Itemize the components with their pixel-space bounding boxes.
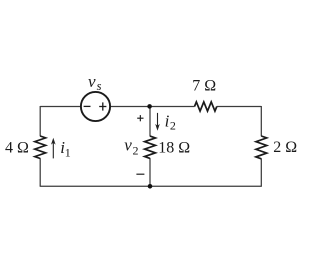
svg-text:s: s (97, 79, 102, 93)
svg-text:18 Ω: 18 Ω (158, 140, 190, 157)
wire right branch upper (260, 106, 262, 136)
label v2 (124, 136, 138, 158)
svg-text:7 Ω: 7 Ω (192, 78, 216, 95)
polarity minus (v2) (136, 173, 144, 175)
wire top-right segment (7ohm to corner) (217, 106, 261, 108)
wire bottom segment (40, 185, 262, 187)
wire middle branch lower (149, 158, 151, 186)
svg-text:i: i (165, 111, 170, 130)
label i2 (165, 111, 176, 132)
wire right branch lower (260, 159, 262, 187)
resistor 4 Ohm (35, 136, 46, 159)
resistor 2 Ohm (256, 136, 267, 159)
svg-text:v: v (124, 136, 132, 155)
current arrow i2 (155, 113, 160, 131)
node A (top junction dot) (147, 104, 152, 109)
resistor 7 Ohm (195, 102, 217, 111)
label i1 (60, 138, 70, 159)
svg-text:2: 2 (133, 143, 139, 157)
svg-text:1: 1 (65, 145, 71, 159)
current arrow i1 (51, 138, 56, 159)
resistor 18 Ohm (145, 136, 156, 158)
svg-text:v: v (88, 72, 96, 91)
wire middle branch upper (149, 107, 151, 137)
wire left branch lower (39, 158, 41, 186)
wire top-left segment (40, 106, 81, 108)
polarity plus (v2) (137, 115, 143, 121)
node B (bottom junction dot) (148, 184, 153, 189)
svg-text:2: 2 (170, 118, 176, 132)
svg-text:2 Ω: 2 Ω (273, 139, 297, 156)
wire top-middle segment (source to node A) (110, 106, 195, 108)
voltage source vs (81, 92, 110, 121)
label vs (88, 72, 102, 93)
svg-text:4 Ω: 4 Ω (5, 140, 29, 157)
wire left branch upper (39, 106, 41, 136)
